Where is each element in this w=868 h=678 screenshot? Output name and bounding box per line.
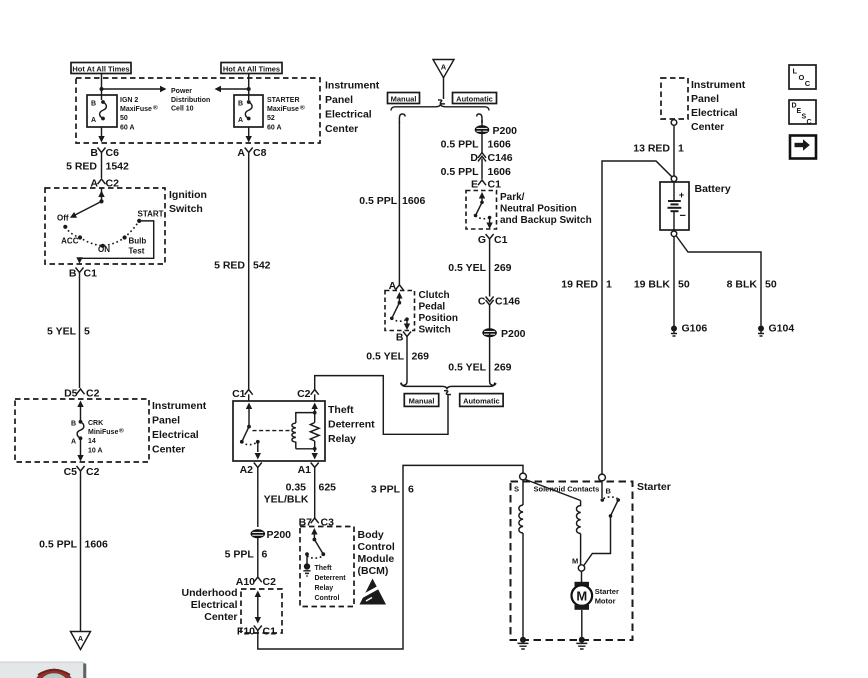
svg-text:C1: C1 [232,388,246,400]
connector A C2 [90,178,119,190]
svg-text:269: 269 [412,351,430,363]
svg-text:3 PPL: 3 PPL [371,484,401,496]
svg-text:Automatic: Automatic [456,94,493,103]
svg-text:50: 50 [120,115,128,122]
automatic branch wire to P200 [481,120,483,126]
svg-text:Relay: Relay [315,585,334,592]
label Ignition Switch [169,189,207,215]
wire 0.5 PPL 1606 [39,476,108,632]
connector G C1 [478,234,508,246]
value label IGN 2 MaxiFuse 50 60 A [120,97,158,132]
connector label box: Hot At All Times (left) [71,63,131,74]
svg-text:C5: C5 [64,466,78,478]
svg-text:1: 1 [678,143,684,155]
svg-text:0.5 YEL: 0.5 YEL [366,351,404,363]
wire exiting IPEC with down arrow [246,127,252,143]
button next (arrow) [790,136,816,159]
svg-text:G: G [478,234,486,246]
ground G106 [671,323,707,337]
svg-text:®: ® [153,104,158,112]
theft deterrent relay box [233,401,325,461]
arrow to Power Distribution Cell 10 [102,86,167,92]
wire break squiggle (top split) [438,100,445,104]
svg-text:Deterrent: Deterrent [315,575,347,582]
label Starter Motor [595,587,619,606]
svg-text:Panel: Panel [325,94,353,106]
svg-text:0.5 PPL: 0.5 PPL [441,139,480,151]
svg-text:D5: D5 [64,388,78,400]
connector B C6 [90,147,119,159]
terminal ring above battery [671,176,677,182]
svg-text:0.5 YEL: 0.5 YEL [448,262,486,274]
arrow (left) to Power Distribution [215,86,249,92]
wire through UEC with arrows [255,591,261,624]
svg-text:625: 625 [319,482,337,494]
automatic branch terminal hook [477,114,482,123]
svg-text:Electrical: Electrical [691,107,738,119]
connector B C1 [69,268,97,280]
connector C2 (relay) [297,388,319,401]
svg-text:MaxiFuse: MaxiFuse [120,106,152,113]
wire C146 to P200 [489,304,491,329]
wire A2 to P200 splice [257,473,259,527]
svg-text:Starter: Starter [595,587,619,596]
wire 0.5 PPL 1606 (to E C1) [441,159,511,180]
svg-text:P200: P200 [501,328,526,340]
svg-text:5 RED: 5 RED [66,161,97,173]
wire 3 PPL 6 routed to starter S terminal [258,465,523,649]
svg-text:and Backup Switch: and Backup Switch [500,215,592,226]
svg-text:C1: C1 [494,234,508,246]
svg-text:F10: F10 [237,626,255,638]
terminal ring below battery [671,231,677,237]
svg-text:C: C [805,79,811,88]
svg-text:19 RED: 19 RED [561,279,598,291]
svg-text:Underhood: Underhood [182,587,238,599]
connector C1 (relay) [232,388,253,401]
svg-text:B: B [606,487,612,496]
connector A (clutch switch) [389,280,404,292]
bottom-left UI widget (partial) [0,662,86,678]
svg-text:Automatic: Automatic [463,396,500,405]
svg-text:5 PPL: 5 PPL [225,548,255,560]
label Power Distribution Cell 10 [171,88,210,113]
svg-text:Hot At All Times: Hot At All Times [72,64,129,73]
svg-text:®: ® [119,427,124,435]
svg-text:Electrical: Electrical [325,109,372,121]
svg-text:C: C [807,119,812,126]
wire from START contact to B C1 [76,221,153,264]
svg-text:1: 1 [606,279,612,291]
connector B (clutch switch) [396,332,411,344]
svg-text:5: 5 [84,325,90,337]
label Underhood Electrical Center [182,587,238,623]
svg-text:−: − [680,210,686,222]
instrument panel electrical center dashed box (top) [76,78,320,143]
underhood electrical center dashed box [241,589,282,633]
manual branch wire 0.5 YEL 269 [366,341,429,379]
svg-text:A: A [441,63,447,72]
connector C5 C2 [64,466,100,478]
svg-text:A: A [237,147,245,159]
automatic branch bottom hook [490,379,496,386]
svg-text:Control: Control [358,541,395,553]
svg-text:5 RED: 5 RED [214,260,245,272]
svg-text:C1: C1 [263,626,277,638]
svg-text:A1: A1 [298,464,312,476]
svg-text:+: + [679,190,685,201]
starter motor M [572,582,593,610]
wire from Hot At All Times to IGN 2 fuse [101,74,103,101]
merge brace (bottom) [401,383,494,390]
svg-text:6: 6 [262,548,268,560]
svg-text:C146: C146 [488,152,513,164]
svg-text:IGN 2: IGN 2 [120,97,138,104]
svg-text:Switch: Switch [169,203,203,215]
svg-text:YEL/BLK: YEL/BLK [264,494,309,506]
connector A C8 [237,147,266,159]
instrument panel electrical center dashed box (lower left) [15,399,149,462]
svg-text:P200: P200 [493,125,518,137]
svg-text:Starter: Starter [637,481,671,493]
svg-text:0.5 PPL: 0.5 PPL [359,195,398,207]
svg-text:Battery: Battery [695,183,731,195]
svg-text:E: E [471,179,478,191]
ignition position dots [63,219,141,248]
svg-text:60 A: 60 A [120,124,135,131]
svg-text:Center: Center [325,123,358,135]
svg-text:Ignition: Ignition [169,189,207,201]
svg-text:MiniFuse: MiniFuse [88,429,118,436]
connector label box: Hot At All Times (right) [221,63,282,74]
svg-text:Relay: Relay [328,433,356,445]
svg-text:Distribution: Distribution [171,97,210,104]
wire 5 YEL 5 [47,278,90,388]
svg-text:0.35: 0.35 [286,482,307,494]
svg-text:Manual: Manual [409,396,435,405]
relay switch (C1 to A2) [240,403,261,460]
wire break squiggle (bottom merge) [444,391,451,395]
splice P200 (automatic bottom) [483,328,526,340]
svg-text:Center: Center [152,443,185,455]
label Instrument Panel Electrical Center (right) [691,79,746,133]
svg-text:6: 6 [408,484,414,496]
split brace (top) [391,104,489,111]
svg-text:A: A [91,117,96,124]
off-page connector A (top triangle) [433,60,454,78]
svg-text:C2: C2 [297,388,311,400]
svg-text:C6: C6 [106,147,120,159]
node junction STARTER feed [247,87,251,91]
wire 13 RED 1 [633,126,684,176]
starter dashed box [511,482,633,641]
svg-text:Clutch: Clutch [419,290,450,301]
clutch switch contacts [390,292,410,330]
svg-text:52: 52 [267,115,275,122]
wire from connector A down to split [443,78,445,99]
label Instrument Panel Electrical Center (lower) [152,400,207,456]
svg-text:ON: ON [98,245,110,254]
button LOC [789,65,816,89]
connector E C1 [471,179,501,191]
ignition position labels [57,210,164,256]
svg-text:C1: C1 [488,179,502,191]
svg-text:Control: Control [315,595,340,602]
svg-text:Center: Center [691,121,724,133]
svg-text:®: ® [300,104,305,112]
ignition switch dashed box [45,188,165,264]
svg-text:Panel: Panel [691,93,719,105]
label Instrument Panel Electrical Center (top) [325,80,380,136]
svg-text:Instrument: Instrument [325,80,380,92]
svg-text:Manual: Manual [391,94,417,103]
solenoid hold-in coil (S to ground) [519,480,523,639]
ground (motor) [576,637,587,649]
button DESC [789,100,816,126]
svg-text:Switch: Switch [419,324,451,335]
wire 0.5 PPL 1606 (to D C146) [441,130,511,153]
battery cell symbol [668,182,686,231]
wire 5 RED 542 [214,158,271,389]
svg-text:C1: C1 [84,268,98,280]
ignition positions dotted arc [65,221,139,246]
body control module dashed box [300,527,354,607]
svg-text:Deterrent: Deterrent [328,419,375,431]
park/neutral switch contacts [474,192,493,229]
svg-text:1606: 1606 [85,538,109,550]
svg-text:Power: Power [171,88,192,95]
label box Manual (bottom) [404,394,438,407]
svg-text:C2: C2 [86,388,100,400]
svg-text:A: A [71,439,76,446]
wire motor to ground [581,610,583,639]
svg-text:Instrument: Instrument [691,79,746,91]
ground (solenoid) [518,637,529,649]
svg-text:Off: Off [57,214,69,223]
svg-text:Bulb: Bulb [129,237,147,246]
connector D5 C2 [64,388,100,400]
node junction IGN2 feed [100,87,104,91]
wire 19 BLK 50 to G106 [634,237,690,326]
svg-text:C: C [478,296,486,308]
label box Automatic (bottom) [460,394,503,407]
svg-text:Hot At All Times: Hot At All Times [223,64,280,73]
connector F10 C1 [237,626,276,638]
branch wire 19 RED 1 (to starter B) [561,161,672,474]
svg-text:STARTER: STARTER [267,97,300,104]
svg-text:Electrical: Electrical [152,429,199,441]
connector C C146 [478,296,520,308]
label box Manual (top) [388,93,420,104]
svg-text:Neutral Position: Neutral Position [500,203,577,214]
svg-text:269: 269 [494,262,512,274]
label Park/ Neutral Position and Backup Switch [500,192,592,226]
wire 0.35 YEL/BLK 625 [264,473,337,518]
svg-text:C146: C146 [495,296,520,308]
svg-text:Theft: Theft [328,404,354,416]
splice P200 (automatic top) [475,125,517,137]
manual branch bottom hook [401,379,407,386]
battery box [660,182,689,230]
wire M to motor [581,571,583,582]
connector D C146 [470,152,512,164]
relay mechanical dashed link [253,430,292,432]
wire 5 PPL 6 [225,538,268,577]
svg-text:Panel: Panel [152,414,180,426]
svg-text:G106: G106 [682,323,708,335]
svg-text:P200: P200 [267,529,292,541]
fuse IGN 2 MaxiFuse 50 60A [87,95,117,127]
terminal ring S [520,473,527,480]
svg-text:0.5 PPL: 0.5 PPL [39,538,78,550]
svg-text:1606: 1606 [488,166,512,178]
svg-text:Theft: Theft [315,565,333,572]
svg-text:M: M [576,588,587,603]
label box Automatic (top) [453,93,497,104]
BCM theft deterrent relay control switch [303,528,325,576]
svg-text:ACC: ACC [61,237,79,246]
svg-text:(BCM): (BCM) [358,565,389,577]
svg-text:A2: A2 [240,464,254,476]
svg-text:5 YEL: 5 YEL [47,325,77,337]
fuse CRK MiniFuse 14 10A [71,420,84,446]
svg-text:269: 269 [494,362,512,374]
svg-text:A: A [238,117,243,124]
park/neutral position switch dashed box [466,191,497,230]
svg-text:C8: C8 [253,147,267,159]
terminal ring B [599,474,606,481]
svg-text:B: B [69,268,77,280]
svg-text:50: 50 [765,279,777,291]
svg-text:Position: Position [419,313,458,324]
ESD warning symbol [360,579,387,605]
svg-text:1606: 1606 [488,139,512,151]
terminal ring at IPEC output [671,120,677,126]
solenoid pull-in coil (S to M) [526,480,581,565]
svg-text:50: 50 [678,279,690,291]
wire exiting IPEC with arrow [98,127,104,143]
wire entering box with up arrow [77,401,83,423]
svg-text:B: B [90,147,98,159]
svg-text:B: B [91,101,96,108]
wire exiting lower IPEC with down arrow [77,438,83,461]
svg-text:G104: G104 [769,323,795,335]
relay coil and resistor (C2 to A1) [292,403,319,460]
svg-text:Park/: Park/ [500,192,525,203]
off-page connector A (bottom triangle) [71,632,91,650]
svg-text:MaxiFuse: MaxiFuse [267,106,299,113]
svg-text:60 A: 60 A [267,124,282,131]
svg-text:D: D [470,152,478,164]
svg-text:14: 14 [88,438,96,445]
svg-text:Cell 10: Cell 10 [171,106,194,113]
label Theft Deterrent Relay Control [315,565,347,602]
svg-text:0.5 YEL: 0.5 YEL [448,362,486,374]
svg-text:Electrical: Electrical [191,599,238,611]
svg-text:Body: Body [358,529,384,541]
svg-text:B: B [71,421,76,428]
instrument panel electrical center dashed box (right) [661,78,688,119]
svg-text:A: A [78,634,84,643]
ignition switch rotor wire [68,188,104,221]
svg-text:A10: A10 [236,576,255,588]
label Theft Deterrent Relay [328,404,375,445]
svg-text:C2: C2 [86,466,100,478]
value label STARTER MaxiFuse 52 60 A [267,97,305,132]
svg-text:0.5 PPL: 0.5 PPL [441,166,480,178]
wire 0.5 YEL 269 (to merge) [448,333,511,379]
svg-text:1606: 1606 [402,195,426,207]
svg-text:M: M [572,557,578,566]
svg-text:Center: Center [204,611,237,623]
connector A10 C2 [236,576,276,588]
splice P200 [251,529,291,541]
label Clutch Pedal Position Switch [419,290,458,336]
svg-text:Test: Test [129,247,145,256]
wire from merge to relay C2 [315,376,448,435]
value label CRK MiniFuse 14 10 A [88,420,124,455]
fuse STARTER MaxiFuse 52 60A [234,95,263,127]
branch wire 8 BLK 50 to G104 [676,236,777,326]
svg-text:S: S [514,485,519,494]
clutch pedal position switch dashed box [385,291,415,331]
svg-text:L: L [793,67,798,76]
terminal ring M [578,565,584,571]
connector A2 [240,463,262,477]
solenoid contacts switch (B to M) [584,481,620,566]
svg-text:Motor: Motor [595,596,616,605]
svg-text:10 A: 10 A [88,447,103,454]
ground G104 [758,323,794,337]
svg-text:1542: 1542 [106,161,130,173]
svg-text:542: 542 [253,260,271,272]
wire from Hot At All Times to STARTER fuse [248,74,250,101]
connector A1 [298,463,319,477]
svg-text:O: O [799,73,805,82]
svg-text:B: B [238,101,243,108]
svg-text:B: B [396,332,404,344]
svg-text:19 BLK: 19 BLK [634,279,671,291]
manual branch terminal hook [399,114,405,123]
svg-text:Module: Module [358,553,395,565]
svg-text:8 BLK: 8 BLK [727,279,758,291]
svg-text:13 RED: 13 RED [633,143,670,155]
wire 0.5 YEL 269 (G to C) [448,244,511,297]
svg-text:C2: C2 [263,576,277,588]
wire 5 RED 1542 [66,158,129,178]
svg-text:CRK: CRK [88,420,103,427]
manual branch wire 0.5 PPL 1606 [359,122,425,285]
svg-text:START: START [138,210,164,219]
svg-text:Pedal: Pedal [419,301,446,312]
connector B7 C3 [299,517,335,529]
svg-text:Instrument: Instrument [152,400,207,412]
label Body Control Module (BCM) [358,529,395,577]
